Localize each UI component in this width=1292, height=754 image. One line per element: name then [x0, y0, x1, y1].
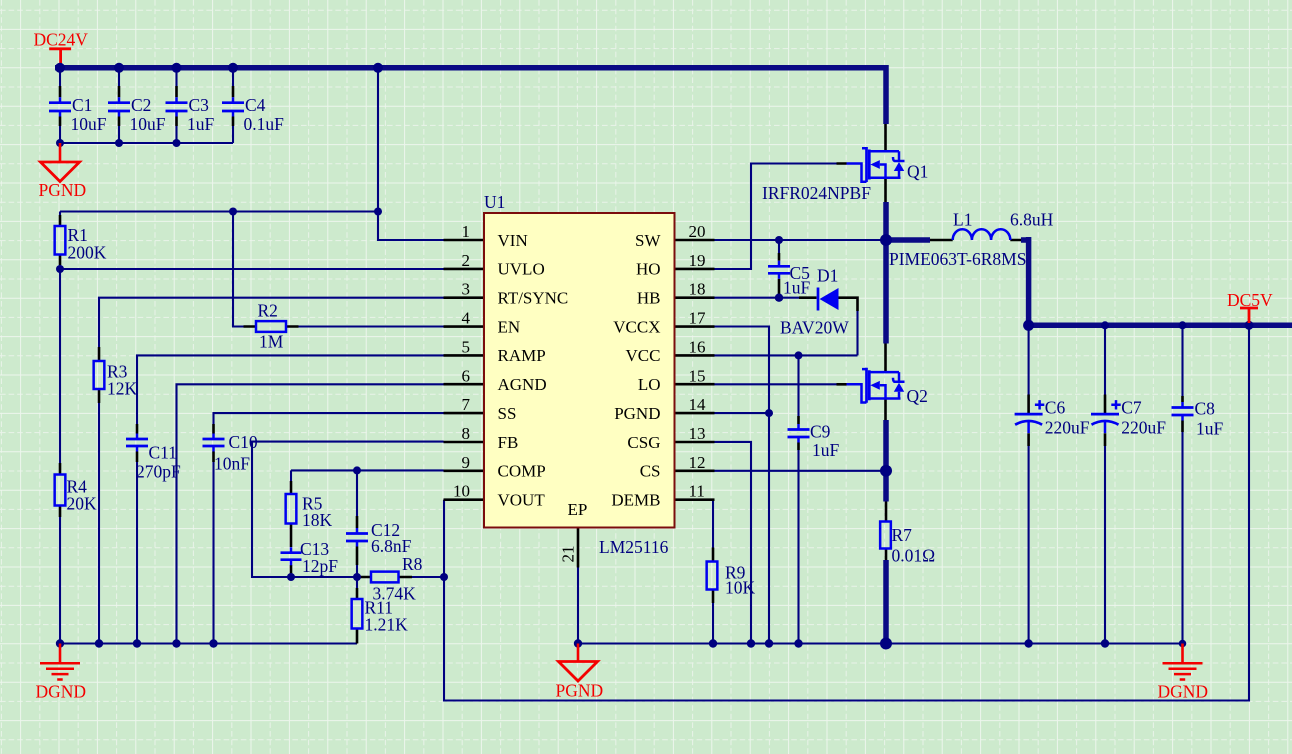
svg-text:DEMB: DEMB	[611, 490, 660, 509]
svg-text:9: 9	[462, 453, 471, 472]
svg-text:D1: D1	[817, 266, 838, 286]
svg-text:10: 10	[453, 482, 470, 501]
svg-text:12pF: 12pF	[302, 556, 338, 576]
svg-text:11: 11	[689, 482, 705, 501]
svg-text:18K: 18K	[302, 510, 333, 530]
svg-text:10K: 10K	[725, 578, 756, 598]
svg-text:HB: HB	[637, 289, 661, 308]
svg-text:VCCX: VCCX	[613, 317, 660, 336]
svg-text:C8: C8	[1195, 399, 1216, 419]
svg-text:1uF: 1uF	[783, 278, 811, 298]
svg-text:EN: EN	[498, 317, 521, 336]
svg-text:16: 16	[689, 337, 706, 356]
svg-text:DC24V: DC24V	[34, 30, 89, 50]
svg-text:SW: SW	[635, 231, 661, 250]
svg-text:2: 2	[462, 251, 471, 270]
svg-text:5: 5	[462, 337, 471, 356]
svg-text:EP: EP	[568, 500, 588, 519]
svg-text:PGND: PGND	[556, 681, 604, 701]
svg-text:1uF: 1uF	[812, 440, 840, 460]
svg-text:10nF: 10nF	[214, 454, 250, 474]
svg-text:0.1uF: 0.1uF	[244, 114, 285, 134]
svg-text:SS: SS	[498, 404, 517, 423]
svg-text:20: 20	[689, 222, 706, 241]
svg-text:4: 4	[462, 309, 471, 328]
svg-text:12: 12	[689, 453, 706, 472]
svg-text:UVLO: UVLO	[498, 260, 545, 279]
svg-text:13: 13	[689, 424, 706, 443]
svg-text:PIME063T-6R8MS: PIME063T-6R8MS	[889, 249, 1026, 269]
svg-text:10uF: 10uF	[71, 114, 107, 134]
svg-text:FB: FB	[498, 433, 519, 452]
svg-text:DGND: DGND	[1158, 682, 1209, 702]
svg-text:R2: R2	[258, 301, 278, 321]
svg-text:COMP: COMP	[498, 462, 546, 481]
svg-text:L1: L1	[953, 210, 972, 230]
svg-text:CSG: CSG	[627, 433, 660, 452]
svg-text:20K: 20K	[67, 494, 98, 514]
svg-text:17: 17	[689, 309, 707, 328]
svg-text:220uF: 220uF	[1121, 418, 1166, 438]
svg-text:VCC: VCC	[626, 346, 661, 365]
svg-text:C3: C3	[189, 95, 210, 115]
svg-text:1uF: 1uF	[187, 114, 215, 134]
svg-text:LM25116: LM25116	[599, 537, 669, 557]
svg-text:21: 21	[559, 546, 578, 563]
svg-text:18: 18	[689, 280, 706, 299]
svg-text:1.21K: 1.21K	[365, 615, 409, 635]
svg-text:6: 6	[462, 366, 471, 385]
svg-text:VIN: VIN	[498, 231, 528, 250]
svg-text:Q2: Q2	[907, 386, 928, 406]
svg-text:C9: C9	[810, 422, 831, 442]
svg-text:R7: R7	[892, 525, 913, 545]
svg-text:7: 7	[462, 395, 471, 414]
svg-text:200K: 200K	[68, 243, 107, 263]
svg-text:DGND: DGND	[36, 682, 87, 702]
svg-text:PGND: PGND	[39, 180, 87, 200]
svg-text:12K: 12K	[107, 379, 138, 399]
svg-text:CS: CS	[640, 462, 661, 481]
svg-text:DC5V: DC5V	[1227, 290, 1273, 310]
svg-text:U1: U1	[484, 192, 505, 212]
svg-text:1M: 1M	[259, 332, 284, 352]
svg-text:19: 19	[689, 251, 706, 270]
svg-text:RAMP: RAMP	[498, 346, 546, 365]
svg-text:220uF: 220uF	[1045, 418, 1090, 438]
svg-text:8: 8	[462, 424, 471, 443]
svg-text:RT/SYNC: RT/SYNC	[498, 289, 569, 308]
svg-text:R8: R8	[402, 554, 423, 574]
svg-text:C11: C11	[149, 443, 178, 463]
svg-text:BAV20W: BAV20W	[780, 318, 849, 338]
svg-text:C2: C2	[131, 95, 151, 115]
svg-text:6.8nF: 6.8nF	[371, 536, 412, 556]
svg-text:Q1: Q1	[907, 162, 928, 182]
svg-text:AGND: AGND	[498, 375, 547, 394]
svg-text:HO: HO	[636, 260, 661, 279]
svg-text:PGND: PGND	[614, 404, 660, 423]
svg-text:C1: C1	[72, 95, 92, 115]
svg-text:C4: C4	[245, 95, 266, 115]
svg-text:15: 15	[689, 366, 706, 385]
svg-text:14: 14	[689, 395, 707, 414]
svg-text:1uF: 1uF	[1196, 419, 1224, 439]
svg-text:0.01Ω: 0.01Ω	[892, 546, 936, 566]
svg-text:C6: C6	[1045, 398, 1066, 418]
svg-text:C7: C7	[1121, 398, 1142, 418]
svg-text:IRFR024NPBF: IRFR024NPBF	[762, 183, 871, 203]
svg-text:1: 1	[462, 222, 471, 241]
svg-text:VOUT: VOUT	[498, 490, 546, 509]
svg-text:6.8uH: 6.8uH	[1010, 210, 1054, 230]
svg-text:LO: LO	[638, 375, 661, 394]
svg-text:10uF: 10uF	[130, 114, 166, 134]
svg-text:270pF: 270pF	[136, 462, 181, 482]
svg-text:C10: C10	[229, 432, 258, 452]
svg-text:3: 3	[462, 280, 471, 299]
